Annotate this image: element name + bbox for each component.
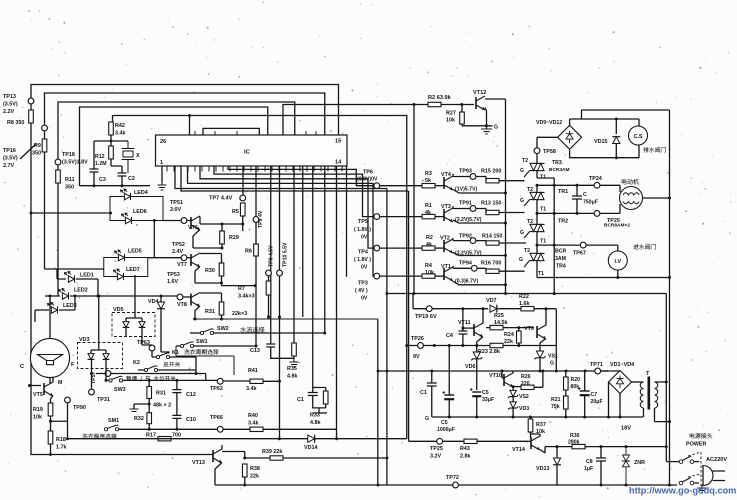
- triac TR2: [524, 224, 545, 238]
- svg-text:350: 350: [65, 185, 74, 191]
- svg-text:(3.5V): (3.5V): [3, 156, 18, 162]
- junction: [600, 484, 603, 487]
- junction: [461, 344, 464, 347]
- test point TP67b: [580, 242, 586, 248]
- diode VD7: [490, 305, 497, 313]
- switch SW1a: [180, 342, 193, 348]
- label wash program select: [82, 434, 116, 439]
- wire TP26 row a: [407, 345, 490, 347]
- IC top pin ticks: [195, 131, 316, 135]
- wire C12 leads: [176, 380, 178, 415]
- svg-text:R31: R31: [156, 391, 166, 397]
- wire R15 to triac gate: [486, 177, 525, 181]
- wire R3 to VT4: [435, 185, 444, 187]
- test point TP24: [594, 182, 600, 188]
- junction: [109, 212, 112, 215]
- svg-text:4k: 4k: [426, 242, 432, 248]
- LED box 2: [104, 258, 148, 277]
- svg-text:T2: T2: [527, 219, 533, 225]
- wire row2 base feed: [380, 216, 422, 218]
- junction: [105, 379, 108, 382]
- junction: [504, 283, 507, 286]
- svg-text:TP52: TP52: [172, 242, 185, 248]
- svg-text:SW2: SW2: [217, 326, 229, 332]
- test point TP63: [149, 345, 155, 351]
- wire LED box1 to LED box2: [153, 221, 155, 258]
- wire section divider to power box right: [387, 294, 666, 447]
- test point TP25: [594, 211, 600, 217]
- wire long vertical C: [324, 166, 326, 333]
- test point TP5: [374, 214, 380, 220]
- IC bottom pin 15: [264, 166, 266, 172]
- wire R13 to triac gate: [486, 209, 525, 213]
- svg-text:R1: R1: [425, 203, 432, 209]
- svg-text:T1: T1: [538, 271, 544, 277]
- IC bottom pin 10: [229, 166, 231, 172]
- svg-text:SM1: SM1: [108, 418, 119, 424]
- junction: [49, 420, 52, 423]
- wire 22k bus down x378: [377, 319, 379, 485]
- wire drain inner top: [570, 118, 639, 120]
- junction: [74, 295, 77, 298]
- svg-text:G: G: [520, 230, 524, 236]
- IC bottom pin 4: [187, 166, 189, 172]
- transistor VT4: [444, 176, 453, 190]
- junction: [461, 307, 464, 310]
- junction: [539, 370, 542, 373]
- wire IC pin to C13: [270, 166, 272, 344]
- LED indicator box 1: [110, 197, 163, 221]
- junction: [555, 370, 558, 373]
- transistor VT11: [474, 323, 483, 337]
- svg-text:R9: R9: [34, 143, 41, 149]
- resistor R2: [422, 246, 435, 250]
- capacitor C13: [266, 344, 275, 347]
- junction: [668, 197, 671, 200]
- svg-text:350: 350: [32, 151, 41, 157]
- svg-text:C1: C1: [420, 390, 427, 396]
- test point TP92: [470, 238, 476, 244]
- label power connector: [690, 433, 712, 438]
- transformer T: [640, 377, 658, 410]
- wire VT3 emitter to bus: [453, 220, 506, 223]
- svg-text:TR4: TR4: [556, 264, 566, 270]
- junction: [504, 192, 507, 195]
- LED D6: [122, 213, 132, 224]
- IC bottom pin 8: [215, 166, 217, 172]
- svg-text:IC: IC: [244, 150, 251, 156]
- resistor R24: [517, 331, 522, 343]
- speaker BL: [30, 338, 69, 377]
- stub: [192, 318, 194, 320]
- resistor R23: [490, 343, 503, 347]
- svg-text:VD3: VD3: [79, 337, 90, 343]
- svg-text:R19: R19: [33, 407, 43, 413]
- wire TR3 T1 to right rail: [537, 171, 554, 294]
- IC bottom pin 1: [166, 166, 168, 172]
- svg-text:22k×3: 22k×3: [232, 311, 247, 317]
- svg-text:9V: 9V: [413, 354, 420, 360]
- wire VT6 emitter loop to R29: [193, 230, 222, 249]
- wire TP8 down: [255, 222, 257, 244]
- wire left bus to VT5 base: [30, 385, 42, 387]
- resistor R19: [48, 403, 53, 416]
- svg-text:20μF: 20μF: [591, 399, 603, 405]
- wire loop 1 (TP13 to IC top): [31, 85, 339, 136]
- svg-text:VD3: VD3: [519, 406, 529, 412]
- svg-text:2.2V: 2.2V: [3, 109, 14, 115]
- transistor VT14: [531, 436, 540, 450]
- svg-text:R42: R42: [115, 123, 125, 129]
- svg-text:SW3: SW3: [114, 387, 126, 393]
- wire inlet valve feed: [537, 245, 618, 251]
- wire TP52 to VT7 base: [148, 257, 192, 259]
- wire VD13 leads: [556, 447, 558, 485]
- junction: [241, 223, 244, 226]
- label pause-on water level switch: [126, 376, 175, 382]
- svg-text:POWER: POWER: [686, 442, 706, 448]
- svg-text:G: G: [494, 125, 498, 131]
- wire C1 box top: [313, 388, 326, 393]
- resistor R36: [572, 444, 585, 448]
- svg-text:TP18: TP18: [62, 152, 75, 158]
- wire LED1 row: [57, 269, 98, 296]
- transistor VT1: [444, 267, 453, 281]
- wire C7 leads: [584, 371, 586, 417]
- junction: [625, 484, 628, 487]
- resistor R41: [250, 379, 263, 383]
- svg-text:VT7: VT7: [177, 262, 187, 268]
- svg-text:TP6: TP6: [363, 169, 373, 175]
- svg-text:http://www.go-gddq.com: http://www.go-gddq.com: [629, 486, 736, 496]
- svg-text:1.2M: 1.2M: [95, 161, 107, 167]
- wire row4 base feed: [380, 275, 422, 277]
- svg-text:VD7: VD7: [486, 298, 497, 304]
- wire R12 to C2: [111, 159, 122, 173]
- resistor R16: [486, 269, 499, 273]
- svg-text:R39 22k: R39 22k: [262, 449, 282, 455]
- wire C1 leads: [431, 371, 433, 417]
- svg-text:TP66: TP66: [210, 415, 223, 421]
- junction: [243, 484, 246, 487]
- svg-text:220: 220: [521, 381, 530, 387]
- wire row3 base feed: [380, 247, 422, 249]
- wire R23 to VS1: [503, 345, 556, 347]
- svg-text:TP26: TP26: [411, 336, 424, 342]
- test point TP72: [453, 482, 459, 488]
- junction: [565, 370, 568, 373]
- wire left bus down to VT13 base: [31, 123, 213, 455]
- label main switch: [163, 362, 180, 367]
- wire IC fanout long vertical x408: [181, 166, 409, 441]
- wire crystal node top: [94, 135, 128, 169]
- wire VD5 feeds: [126, 275, 142, 321]
- wire bus x505: [505, 169, 507, 293]
- junction: [512, 385, 515, 388]
- junction: [517, 326, 520, 329]
- wire long vertical D: [336, 166, 338, 429]
- capacitor C3: [90, 169, 99, 172]
- label motor: [622, 179, 639, 184]
- resistor R13: [486, 210, 499, 214]
- wire R1 to VT3: [435, 216, 444, 218]
- junction: [615, 118, 618, 121]
- resistor R37: [528, 419, 533, 432]
- test point TP90: [65, 397, 71, 403]
- svg-text:1: 1: [160, 160, 163, 166]
- triac TR4: [524, 253, 545, 267]
- inlet valve I.V: [608, 251, 627, 270]
- svg-text:T2: T2: [527, 187, 533, 193]
- wire VT4 collector row: [453, 174, 486, 177]
- svg-text:VT9: VT9: [524, 326, 534, 332]
- wire R7 to 22k bus: [268, 295, 270, 317]
- junction: [553, 212, 556, 215]
- junction: [448, 344, 451, 347]
- wire TP51 to VT6 base: [187, 220, 191, 222]
- svg-text:TP8 4V: TP8 4V: [258, 210, 264, 228]
- wire triac chain: [536, 154, 538, 278]
- svg-text:3AM: 3AM: [555, 256, 566, 262]
- svg-text:TP7 4.4V: TP7 4.4V: [209, 196, 233, 202]
- opto box VD3: [78, 343, 123, 369]
- svg-text:TP62: TP62: [210, 386, 223, 392]
- junction: [278, 316, 281, 319]
- test point TP4: [374, 245, 380, 251]
- junction: [255, 345, 258, 348]
- zener VD6: [471, 352, 482, 360]
- resistor R20: [564, 377, 569, 390]
- wire R11 down to LED2 row: [57, 165, 59, 296]
- svg-text:R36: R36: [570, 433, 580, 439]
- svg-text:R5: R5: [232, 209, 239, 215]
- wire secondary to right bus: [655, 382, 670, 422]
- svg-text:C13: C13: [250, 348, 260, 354]
- wire C1 box bottom: [313, 396, 326, 414]
- svg-text:22k: 22k: [250, 474, 259, 480]
- switch SM1: [104, 425, 118, 431]
- junction: [461, 327, 464, 330]
- wire IC pin to R35: [293, 166, 295, 343]
- resistor R9: [42, 139, 47, 152]
- resistor R31: [147, 387, 152, 399]
- switch SW2: [200, 329, 213, 335]
- svg-text:T2: T2: [524, 248, 530, 254]
- svg-text:33μF: 33μF: [482, 397, 494, 403]
- wire TP16 to R9: [44, 131, 46, 139]
- junction: [584, 370, 587, 373]
- svg-text:80k: 80k: [571, 384, 580, 390]
- IC bottom pin 14: [257, 166, 259, 172]
- switch power top: [679, 456, 694, 463]
- test point TP53: [177, 294, 183, 300]
- crystal X: [122, 141, 135, 173]
- resistor R40: [250, 427, 263, 431]
- svg-text:LED5: LED5: [128, 249, 142, 255]
- junction: [148, 428, 151, 431]
- switch K1: [156, 353, 169, 359]
- wire TP25 rail to VT14: [409, 440, 529, 442]
- wire IC pin to 22k bus: [302, 166, 304, 317]
- wire TP66 row: [223, 429, 337, 438]
- junction: [221, 223, 224, 226]
- wire zener chain: [512, 397, 514, 417]
- switch power bottom: [679, 478, 694, 485]
- LED D7: [114, 269, 124, 280]
- IC bottom pin 9: [222, 166, 224, 172]
- resistor R30: [219, 263, 224, 276]
- wire VT14 leads: [531, 432, 546, 453]
- wire C5b down: [476, 396, 478, 417]
- wire C3 to gnd rail: [93, 172, 95, 186]
- IC bottom pin 24: [327, 166, 329, 172]
- svg-text:10k: 10k: [425, 270, 434, 276]
- capacitor C2: [118, 173, 127, 176]
- svg-text:4.8k: 4.8k: [310, 420, 321, 426]
- label inlet valve: [633, 244, 655, 249]
- svg-text:C: C: [583, 192, 587, 198]
- svg-text:1000μF: 1000μF: [437, 427, 455, 433]
- capacitor C4: [458, 331, 467, 334]
- wire C8 leads: [600, 447, 602, 485]
- ground R35: [290, 359, 299, 367]
- junction: [501, 370, 504, 373]
- junction: [175, 379, 178, 382]
- capacitor C1b: [308, 393, 318, 396]
- svg-text:R20: R20: [571, 377, 581, 383]
- svg-text:VT4: VT4: [441, 172, 451, 178]
- svg-text:4.8k: 4.8k: [287, 374, 298, 380]
- svg-text:LED4: LED4: [134, 190, 148, 196]
- diode VD4: [157, 302, 165, 309]
- svg-text:R32: R32: [134, 416, 144, 422]
- junction: [482, 307, 485, 310]
- svg-text:R18: R18: [56, 437, 66, 443]
- svg-text:G: G: [520, 198, 524, 204]
- diode VD5b: [139, 322, 146, 328]
- svg-text:TP71: TP71: [590, 362, 603, 368]
- junction: [512, 416, 515, 419]
- svg-text:TP16: TP16: [3, 148, 16, 154]
- svg-text:R2: R2: [426, 235, 433, 241]
- resistor R39: [270, 456, 283, 460]
- svg-text:R4: R4: [425, 263, 432, 269]
- IC bottom pin 7: [208, 166, 210, 172]
- wire IC pin to TP8: [255, 166, 257, 217]
- wire R27 bottom to emitter: [462, 124, 493, 126]
- wire IC fanout row1: [228, 166, 374, 186]
- junction: [148, 403, 151, 406]
- svg-text:0V: 0V: [361, 235, 368, 241]
- wire R6 down to SW1 row: [255, 256, 257, 346]
- wire R25 row: [486, 327, 534, 329]
- svg-text:K1: K1: [172, 350, 179, 356]
- svg-text:TR3: TR3: [552, 160, 562, 166]
- svg-text:R43: R43: [460, 446, 470, 452]
- resistor R18: [48, 431, 53, 444]
- svg-text:(0.3)6.7V): (0.3)6.7V): [455, 278, 478, 284]
- leader line TP16: [20, 144, 36, 159]
- test point TP57: [105, 371, 111, 377]
- wire R29 leads: [221, 224, 223, 248]
- test point TP66: [217, 426, 223, 432]
- svg-text:1.6V: 1.6V: [167, 279, 178, 285]
- svg-text:R15 200: R15 200: [481, 169, 501, 175]
- svg-text:TP92: TP92: [459, 234, 472, 240]
- junction: [413, 292, 416, 295]
- varistor ZNR: [622, 447, 630, 485]
- svg-text:VT12: VT12: [473, 90, 486, 96]
- junction: [668, 420, 671, 423]
- wire IC fanout row2: [214, 166, 374, 217]
- svg-text:VD6: VD6: [465, 364, 476, 370]
- wire SW1a row: [176, 345, 256, 347]
- svg-text:C2: C2: [128, 176, 135, 182]
- svg-text:VD9~VD12: VD9~VD12: [536, 120, 562, 126]
- svg-text:700: 700: [172, 433, 181, 439]
- svg-text:VD14: VD14: [304, 445, 318, 451]
- triac TR3 (T2/G/T1): [524, 163, 545, 177]
- wire VT7 collector to R30: [200, 254, 222, 264]
- wire 371 rail to bridge: [378, 370, 608, 372]
- junction: [66, 437, 69, 440]
- test point TP10: [277, 270, 283, 276]
- test point TP6: [374, 183, 380, 189]
- wire TP90 down: [67, 403, 69, 439]
- plug AC220V: [703, 466, 725, 486]
- junction: [668, 276, 671, 279]
- svg-text:VT5: VT5: [33, 392, 43, 398]
- junction: [556, 445, 559, 448]
- wire transformer primary bottom: [643, 408, 645, 417]
- junction: [553, 244, 556, 247]
- wire SW3 row: [105, 379, 206, 381]
- svg-text:TP25: TP25: [430, 446, 443, 452]
- svg-text:R14 150: R14 150: [482, 234, 502, 240]
- switch SW3: [109, 376, 123, 382]
- wire IC fanout row4: [188, 166, 375, 276]
- wire C4 branch: [462, 309, 464, 346]
- wire VD3 feeds: [91, 296, 106, 353]
- svg-text:(3.5V): (3.5V): [3, 102, 18, 108]
- LED D5: [115, 250, 125, 261]
- junction: [110, 140, 113, 143]
- wire VT1 emitter to bus: [453, 281, 506, 285]
- label water flow select: [240, 327, 264, 333]
- ground VT12 emitter: [481, 126, 492, 134]
- junction: [323, 332, 326, 335]
- plug dashed link: [688, 452, 701, 488]
- ground IC pin1: [158, 182, 167, 190]
- svg-text:G: G: [519, 257, 523, 263]
- svg-text:AC220V: AC220V: [706, 457, 727, 463]
- resistor R4: [422, 274, 435, 278]
- resistor R3: [422, 184, 435, 188]
- test point TP51: [181, 218, 187, 224]
- wire motor leads: [537, 185, 620, 213]
- svg-text:BCR8AM×2: BCR8AM×2: [604, 223, 630, 229]
- bridge rectifier VD9-VD12: [558, 125, 582, 149]
- junction: [665, 445, 668, 448]
- svg-text:R30: R30: [205, 268, 215, 274]
- svg-text:R16 700: R16 700: [481, 261, 501, 267]
- resistor R27: [460, 112, 465, 124]
- capacitor C5 1000uF: [442, 391, 454, 399]
- wire pause row: [96, 374, 206, 381]
- junction: [536, 212, 539, 215]
- switch matrix box: [176, 346, 234, 375]
- junction: [529, 416, 532, 419]
